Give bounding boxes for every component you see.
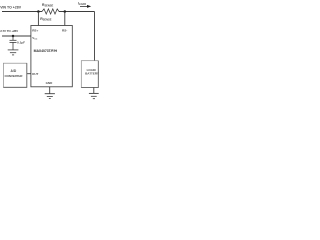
node capacitor junction dot — [12, 35, 15, 38]
svg-text:RSENSE: RSENSE — [42, 3, 54, 8]
node RS+ junction dot — [37, 10, 40, 13]
svg-text:CONVERTER: CONVERTER — [5, 74, 24, 78]
op-amp U1 MAX4073 body — [31, 26, 72, 87]
wire VIN rail right segment — [59, 11, 95, 13]
svg-text:OUT: OUT — [32, 72, 39, 76]
ground (load/battery) — [89, 92, 99, 94]
A/D converter box — [3, 63, 26, 87]
svg-text:VIN TO +28V: VIN TO +28V — [0, 6, 22, 10]
background — [0, 0, 100, 100]
ground (bypass capacitor) — [8, 49, 19, 51]
wire RS- stub — [64, 12, 66, 26]
svg-text:RS-: RS- — [62, 29, 67, 33]
load/battery box — [81, 61, 98, 88]
capacitor C1 0.1uF — [12, 36, 14, 40]
wire right vertical drop to load — [94, 12, 96, 61]
ground (IC GND pin) — [45, 93, 55, 95]
svg-text:0.1µF: 0.1µF — [17, 40, 25, 44]
svg-text:BATTERY: BATTERY — [85, 72, 99, 76]
svg-text:GND: GND — [46, 81, 54, 85]
svg-text:ILOAD: ILOAD — [78, 2, 86, 7]
wire RS+ stub — [37, 12, 39, 26]
wire GND stub — [49, 87, 51, 94]
wire VIN rail left segment — [2, 11, 42, 13]
resistor RSENSE — [42, 9, 59, 14]
svg-text:RS+: RS+ — [32, 29, 38, 33]
svg-text:2.7V TO +28V: 2.7V TO +28V — [0, 29, 18, 33]
current arrow ILOAD — [80, 5, 88, 7]
svg-text:MAX4073T/F/H: MAX4073T/F/H — [34, 49, 58, 53]
svg-text:RSENSE: RSENSE — [40, 17, 52, 22]
wire OUT — [27, 73, 31, 75]
node RS- junction dot — [64, 10, 67, 13]
wire load ground stub — [93, 88, 95, 94]
wire VCC rail — [2, 35, 31, 37]
svg-text:A/D: A/D — [11, 69, 17, 73]
